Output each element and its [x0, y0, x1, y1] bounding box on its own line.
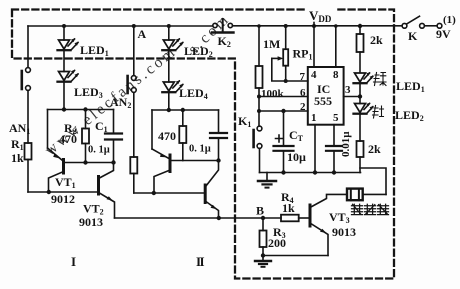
label A — [138, 27, 147, 41]
wire pin4 — [313, 26, 315, 67]
label 0.1u II — [189, 144, 211, 155]
label green char — [374, 73, 387, 86]
wire top rail right — [233, 25, 403, 27]
svg-text:7: 7 — [300, 71, 306, 83]
ground symbol near K1 — [258, 173, 276, 188]
node dot LED2 column — [167, 24, 171, 28]
wire VT1' emitter drop — [151, 110, 153, 149]
wire branch to buzzer — [360, 168, 386, 194]
wire pin2 — [259, 110, 308, 112]
label VT2 — [83, 202, 104, 217]
wire pin3 — [344, 96, 360, 98]
wire AN1 to R1 — [27, 91, 29, 144]
label LED4 — [179, 86, 208, 101]
svg-text:100k: 100k — [261, 88, 285, 100]
label AN1 — [9, 121, 30, 136]
svg-text:LED4: LED4 — [179, 86, 208, 101]
wire top rail left — [28, 25, 213, 27]
ground symbol under R3 — [255, 256, 271, 267]
junction dot 2k rail — [358, 24, 362, 28]
label R4 — [281, 190, 294, 205]
label LED2 right — [395, 108, 424, 123]
label C1 — [95, 119, 108, 134]
label K2 — [218, 34, 231, 49]
label R2 — [64, 121, 77, 136]
label 470 — [59, 132, 77, 146]
svg-text:470: 470 — [158, 129, 176, 143]
pin label 8 — [333, 69, 339, 81]
label 0.01u — [340, 131, 352, 157]
resistor R1 — [25, 143, 32, 160]
wire left drop to AN1 — [27, 26, 29, 67]
svg-text:10µ: 10µ — [287, 150, 306, 164]
potentiometer RP1 — [272, 26, 288, 83]
label VT3 — [329, 210, 350, 225]
label R1 — [11, 137, 24, 152]
transistor VT2 section II — [205, 161, 218, 219]
resistor AN2 path — [130, 157, 137, 174]
junction dot CT bottom — [281, 170, 285, 174]
label LED1 — [80, 43, 109, 58]
pin label 1 — [311, 112, 317, 124]
wire emitter line to B — [115, 217, 264, 219]
svg-text:0. 1µ: 0. 1µ — [88, 145, 110, 156]
label 555 — [314, 94, 332, 108]
svg-text:5: 5 — [333, 112, 339, 124]
svg-text:9013: 9013 — [332, 225, 356, 239]
label K — [408, 29, 418, 43]
transistor VT1 — [48, 148, 64, 192]
transistor VT1 section II — [152, 149, 170, 193]
label 0.1u — [88, 145, 110, 156]
junction dot pin3 — [358, 94, 362, 98]
wire 100k top — [258, 26, 260, 66]
junction dot LED4 — [167, 108, 171, 112]
wire base line I2 — [65, 162, 114, 164]
resistor 100k — [256, 66, 263, 88]
pin label 7 — [300, 71, 306, 83]
resistor 2k lower — [357, 141, 364, 157]
wire bottom emitter line — [263, 255, 328, 257]
pushbutton AN2 — [128, 76, 137, 93]
resistor R3 — [260, 218, 267, 256]
wire pin3 node to red LED — [359, 97, 361, 104]
wire pin7 — [272, 58, 308, 81]
label 100k — [261, 88, 285, 100]
label 10u — [287, 150, 306, 164]
transistor VT3 — [310, 194, 347, 255]
pushbutton AN1 — [22, 68, 31, 91]
svg-text:LED1: LED1 — [80, 43, 109, 58]
wire A drop to AN2 — [133, 26, 135, 76]
label B — [256, 204, 264, 218]
junction dot pin8 rail — [334, 24, 338, 28]
junction dot LED3 — [62, 107, 66, 111]
svg-text:LED2: LED2 — [184, 44, 213, 59]
svg-text:9013: 9013 — [79, 215, 103, 229]
svg-text:2k: 2k — [370, 33, 383, 47]
label 2k lower — [368, 142, 381, 156]
svg-text:2k: 2k — [368, 142, 381, 156]
junction dot C1 bottom — [111, 160, 115, 164]
label 1k R4 — [282, 201, 295, 215]
wire 100k to K1 — [258, 88, 260, 126]
svg-text:2: 2 — [300, 101, 306, 113]
wire pin1 — [314, 125, 316, 173]
junction dot 100k rail — [257, 24, 261, 28]
wire node line section II — [152, 109, 219, 111]
watermark www.elecfans.com — [42, 43, 180, 160]
resistor 2k upper — [357, 26, 364, 73]
resistor 470 section II — [179, 110, 186, 161]
capacitor 0.01u — [326, 125, 342, 173]
svg-text:3: 3 — [345, 84, 351, 96]
svg-text:1M: 1M — [263, 37, 280, 51]
capacitor CT — [274, 111, 294, 173]
wire VT1 emitter drop — [47, 110, 49, 149]
wire base line section II — [134, 192, 204, 194]
label K1 — [238, 114, 251, 129]
junction dot R470 top — [181, 108, 185, 112]
wire R4 from B — [263, 217, 281, 219]
wire base line section I — [28, 191, 97, 193]
junction dot VT1' collector — [152, 191, 156, 195]
node A dot — [132, 24, 136, 28]
wire K1 to ground line — [259, 148, 261, 172]
wire R1 down to base line — [27, 160, 29, 193]
label 200 — [268, 236, 286, 250]
label VDD — [306, 3, 337, 24]
pin label 6 — [300, 87, 306, 99]
resistor R2 — [82, 110, 89, 163]
svg-text:6: 6 — [300, 87, 306, 99]
pushbutton K1 — [254, 126, 262, 148]
label 9012 — [51, 192, 75, 206]
label 470 II — [158, 129, 176, 143]
svg-text:8: 8 — [333, 69, 339, 81]
junction dot R2 top — [83, 107, 87, 111]
label RP1 — [293, 47, 313, 62]
junction dot CT top — [281, 109, 285, 113]
wire 2k lower to ground line — [359, 157, 361, 173]
label buzzer chars — [352, 204, 389, 214]
svg-text:200: 200 — [268, 236, 286, 250]
wire LED2 to LED4 — [168, 50, 170, 82]
buzzer — [347, 189, 386, 201]
label IC — [317, 82, 330, 96]
wire base line II2 — [171, 160, 219, 162]
svg-text:K: K — [408, 29, 418, 43]
wire resistor to base line II — [133, 174, 135, 194]
label (1) — [443, 14, 456, 26]
LED red — [354, 103, 374, 114]
svg-text:LED2: LED2 — [395, 108, 424, 123]
wire R4 to VT3 — [299, 217, 309, 219]
junction dot R3 bottom — [261, 253, 265, 257]
junction dot VT2' emitter — [217, 216, 221, 220]
switch K2 — [212, 19, 234, 33]
label LED3 — [74, 85, 103, 100]
label LED2 — [184, 44, 213, 59]
wire red LED to 2k lower — [359, 114, 361, 141]
label 9013 — [79, 215, 103, 229]
wire LED3 to node line I — [63, 82, 65, 110]
label 9013 VT3 — [332, 225, 356, 239]
junction dot R2 bottom — [83, 160, 87, 164]
pin label 4 — [311, 69, 317, 81]
junction dot VT1 collector — [47, 190, 51, 194]
svg-text:B: B — [256, 204, 264, 218]
resistor R4 — [281, 215, 299, 222]
svg-text:1k: 1k — [282, 201, 295, 215]
svg-text:1k: 1k — [11, 151, 24, 165]
label CT — [289, 128, 304, 143]
label section I — [71, 254, 76, 269]
switch K — [402, 16, 442, 28]
svg-text:555: 555 — [314, 94, 332, 108]
junction dot pin4 rail — [312, 24, 316, 28]
LED4 — [162, 80, 183, 92]
wire LED4 to node line II — [168, 92, 170, 110]
label LED1 right — [396, 79, 425, 94]
wire ground line — [260, 172, 361, 174]
wire VDD stub — [313, 23, 315, 27]
LED2 — [162, 26, 183, 50]
svg-text:A: A — [138, 27, 147, 41]
wire node line section I — [48, 109, 114, 111]
IC 555 — [308, 67, 344, 125]
label section II — [196, 254, 205, 269]
svg-text:I: I — [71, 254, 76, 269]
svg-text:LED3: LED3 — [74, 85, 103, 100]
wire pin6 — [259, 96, 308, 98]
svg-text:LED1: LED1 — [396, 79, 425, 94]
wire LED1 to LED3 — [63, 50, 65, 71]
junction dot C' bottom — [216, 158, 220, 162]
wire pin8 — [335, 26, 337, 67]
label plus — [276, 135, 283, 142]
svg-text:(1): (1) — [443, 14, 456, 26]
node dot LED1 column — [62, 24, 66, 28]
label VT1 — [55, 175, 76, 190]
junction dot 0.01u bottom — [332, 170, 336, 174]
junction dot pin2 — [257, 109, 261, 113]
svg-text:470: 470 — [59, 132, 77, 146]
dashed border — [12, 10, 394, 279]
LED3 — [58, 70, 79, 82]
transistor VT2 — [99, 163, 115, 219]
pin label 5 — [333, 112, 339, 124]
label 1k — [11, 151, 24, 165]
wire green LED to pin3 node — [359, 83, 361, 96]
pin label 2 — [300, 101, 306, 113]
label red char — [373, 106, 384, 119]
LED1 — [58, 26, 79, 50]
label AN2 — [110, 95, 131, 110]
svg-text:9012: 9012 — [51, 192, 75, 206]
junction dot B — [261, 216, 265, 220]
label 2k upper — [370, 33, 383, 47]
capacitor C section II — [210, 110, 227, 161]
label 9V — [436, 27, 451, 41]
junction dot RP1 rail — [284, 24, 288, 28]
watermark fragment s.com — [185, 10, 234, 58]
junction dot pin1 — [313, 170, 317, 174]
svg-text:9V: 9V — [436, 27, 451, 41]
wire AN2 to R5 — [133, 93, 135, 158]
LED green — [354, 72, 374, 83]
junction dot pin6 — [257, 95, 261, 99]
pin label 3 — [345, 84, 351, 96]
label R3 — [273, 225, 286, 240]
capacitor C1 — [105, 110, 122, 163]
svg-text:4: 4 — [311, 69, 317, 81]
svg-text:0. 1µ: 0. 1µ — [189, 144, 211, 155]
svg-text:0.01µ: 0.01µ — [340, 131, 352, 157]
label 1M — [263, 37, 280, 51]
svg-text:1: 1 — [311, 112, 317, 124]
